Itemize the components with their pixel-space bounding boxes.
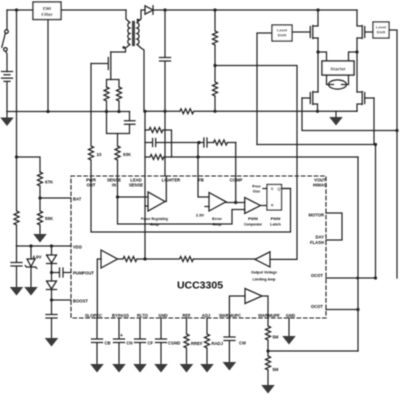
svg-text:S: S <box>271 186 274 191</box>
svg-text:CW: CW <box>239 341 246 346</box>
svg-text:FLASH: FLASH <box>310 240 324 245</box>
ground CB <box>90 364 104 373</box>
svg-text:5M: 5M <box>273 335 279 340</box>
wire warmup input <box>229 296 245 318</box>
wire warmupc ext <box>228 318 230 337</box>
wire rlto ext <box>139 318 141 339</box>
IC box dashed <box>71 176 326 318</box>
node output cap rail <box>163 110 166 113</box>
wire PRA output <box>165 176 166 202</box>
svg-text:OCOT: OCOT <box>311 304 324 309</box>
zener 4.9V <box>25 246 37 287</box>
capacitor CF <box>135 339 146 364</box>
starter box <box>322 61 354 75</box>
svg-text:GND: GND <box>158 313 167 318</box>
lamp <box>327 75 349 85</box>
wire OVL input <box>270 176 297 259</box>
op-amp output voltage limiting <box>255 252 270 267</box>
svg-text:OUT: OUT <box>87 183 96 188</box>
wire OUT2 gate line <box>302 98 397 131</box>
svg-text:PWM: PWM <box>271 216 281 221</box>
wire gnd2 ext <box>288 318 290 336</box>
resistor RREF <box>184 318 189 364</box>
svg-text:Shift: Shift <box>377 30 387 35</box>
resistor rail inline <box>180 109 357 114</box>
svg-text:2.5V: 2.5V <box>196 213 205 218</box>
node starter left <box>316 50 319 53</box>
capacitor output filter <box>160 10 171 176</box>
wire sense tap <box>117 134 119 147</box>
op-amp slope buffer <box>101 250 118 268</box>
svg-text:Comparator: Comparator <box>244 221 262 226</box>
wire BOOST pin <box>52 299 72 301</box>
svg-text:4.9V: 4.9V <box>33 255 42 260</box>
wire VDD pin rail <box>17 245 72 247</box>
node battery rail junction <box>15 8 18 11</box>
wire COMP pin <box>235 143 237 203</box>
svg-text:BYPASS: BYPASS <box>112 313 129 318</box>
ground warmup <box>261 385 275 394</box>
svg-text:Output Voltage: Output Voltage <box>251 270 278 275</box>
svg-text:Error: Error <box>212 216 222 221</box>
ground CW <box>223 362 237 371</box>
node bridge left top <box>316 8 319 11</box>
wire lamp voltage tap <box>215 66 297 177</box>
wire FB long line <box>198 156 358 158</box>
wire motor dayflash bracket <box>326 213 342 240</box>
svg-text:UCC3305: UCC3305 <box>177 280 223 292</box>
wire OUT1 vertical <box>375 145 377 279</box>
wire EMI filter bottom <box>47 20 49 112</box>
wire slope buffer input <box>97 259 101 318</box>
op-amp error <box>209 193 226 212</box>
svg-text:BAT: BAT <box>73 197 82 202</box>
resistor comp <box>214 140 236 145</box>
wire Q1 source split <box>107 80 120 88</box>
ground VDD cap <box>10 287 24 296</box>
wire BAT pin <box>40 197 71 199</box>
svg-text:FB: FB <box>198 178 204 183</box>
ground RREF <box>180 364 194 373</box>
ground CN <box>112 364 126 373</box>
node COMP tee <box>234 201 237 204</box>
wire secondary return <box>137 45 144 111</box>
wire latch Q out <box>282 188 291 190</box>
svg-text:RLTO: RLTO <box>137 313 149 318</box>
wire top rail left <box>7 9 126 11</box>
node divider top <box>213 8 216 11</box>
mosfet Q3 <box>302 92 318 112</box>
wire LEAD internal <box>144 176 146 259</box>
node BAT tap <box>38 196 41 199</box>
wire divider tap to 67K <box>17 157 41 172</box>
ground zener <box>24 287 38 296</box>
resistor lead lower <box>145 155 198 160</box>
svg-text:Q: Q <box>277 186 280 191</box>
node OUT2 pin tee <box>356 308 359 311</box>
node comp network <box>197 141 200 144</box>
wire starter leads <box>318 52 357 61</box>
node OUT2 crossing blob <box>356 277 359 280</box>
svg-text:CN: CN <box>127 341 133 346</box>
svg-text:CB: CB <box>105 341 111 346</box>
wire bridge left node <box>317 38 319 92</box>
capacitor CGND <box>156 339 167 364</box>
resistor warmup upper 5M <box>266 318 271 351</box>
svg-text:COMP: COMP <box>230 178 243 183</box>
resistor 56K <box>38 198 43 234</box>
svg-text:RREF: RREF <box>191 341 203 346</box>
node sense A rail <box>105 110 108 113</box>
wire LEAD to PRA <box>145 205 148 207</box>
node phase dot primary <box>122 46 125 49</box>
ground battery <box>6 112 8 118</box>
wire secondary top lead <box>137 10 145 23</box>
svg-text:Starter: Starter <box>330 67 346 73</box>
svg-text:PUMPOUT: PUMPOUT <box>73 271 94 276</box>
node EMI ground junction <box>46 110 49 113</box>
mosfet Q1 <box>91 52 111 80</box>
wire slopec ext <box>96 318 98 339</box>
node OUT2 tee <box>395 129 398 132</box>
node OUT1 pin tee <box>374 276 377 279</box>
capacitor pump <box>52 268 72 277</box>
diode pump D1 <box>47 246 57 273</box>
capacitor CB <box>92 339 103 364</box>
wire PWROUT internal wrap <box>91 176 291 232</box>
capacitor boost <box>46 300 57 338</box>
wire EA output <box>226 202 245 204</box>
svg-text:Filter: Filter <box>41 12 52 17</box>
wire ground rail right <box>144 110 180 113</box>
ground bridge <box>335 111 337 117</box>
svg-text:10: 10 <box>97 152 102 157</box>
comparator PWM <box>245 198 261 214</box>
svg-text:Power Regulating: Power Regulating <box>141 216 168 221</box>
svg-text:Shift: Shift <box>278 33 288 38</box>
resistor 10 gate <box>89 64 94 177</box>
wire warmup divider tap <box>268 350 358 352</box>
ground CF <box>133 364 147 373</box>
level shift box right <box>373 22 389 38</box>
svg-text:Osc: Osc <box>253 188 261 193</box>
diode pump D2 <box>47 273 57 301</box>
latch box PWM <box>267 185 282 211</box>
switch S1 <box>6 10 8 30</box>
wire OUT1 gate line <box>257 144 376 146</box>
svg-text:WARMUPF: WARMUPF <box>258 313 280 318</box>
ground boost cap <box>45 338 59 347</box>
node divider tap <box>213 64 216 67</box>
capacitor CN <box>114 339 125 364</box>
svg-text:GND: GND <box>286 313 295 318</box>
wire SENSE to PRA <box>118 196 149 198</box>
wire FB pin <box>198 143 209 198</box>
capacitor sense filter <box>107 112 136 134</box>
op-amp power regulating <box>148 192 165 211</box>
ground gnd2 <box>282 336 296 345</box>
EMI filter box <box>33 2 61 20</box>
wire gnd pin ext <box>160 318 162 339</box>
op-amp warmup buffer <box>245 289 262 304</box>
svg-text:OCOT: OCOT <box>311 273 324 278</box>
wire OUT1 pin <box>326 277 376 279</box>
mosfet Q5 <box>357 92 374 112</box>
wire level shift left input <box>257 33 272 145</box>
wire Q5 gate drop <box>373 98 375 145</box>
transformer T1 <box>128 23 130 45</box>
svg-text:BOOST: BOOST <box>73 299 88 304</box>
svg-text:DAY: DAY <box>316 235 325 240</box>
wire bridge right node <box>356 38 358 92</box>
wire OUT2 vertical <box>357 157 359 351</box>
svg-text:SENSE: SENSE <box>129 183 143 188</box>
svg-text:Amp: Amp <box>150 221 159 226</box>
svg-text:56K: 56K <box>45 216 54 221</box>
capacitor CW <box>224 337 235 362</box>
node OUT1 tee <box>374 143 377 146</box>
svg-text:ADJ: ADJ <box>202 313 211 318</box>
node VBAT divider tap <box>15 155 18 158</box>
ground CGND <box>154 364 168 373</box>
node FB tee <box>196 155 199 158</box>
ground 56K <box>33 234 47 243</box>
wire ground rail left <box>7 111 130 113</box>
resistor warmup lower 5M <box>266 351 271 385</box>
resistor sense B <box>117 87 122 112</box>
wire level shift right input <box>389 30 397 278</box>
svg-text:CF: CF <box>148 341 154 346</box>
svg-text:WARMUPC: WARMUPC <box>219 313 241 318</box>
battery BT1 <box>2 72 13 112</box>
node buffer lead join <box>143 257 146 260</box>
svg-text:R: R <box>271 203 274 208</box>
resistor buffer out <box>118 257 146 262</box>
resistor divider upper <box>213 10 218 66</box>
wire free osc to latch <box>263 188 267 190</box>
svg-text:MOTOR: MOTOR <box>308 213 324 218</box>
svg-text:5M: 5M <box>273 367 279 372</box>
resistor ovl line <box>145 257 255 262</box>
level shift box left <box>272 25 292 41</box>
resistor RADJ <box>205 318 210 364</box>
node output cap top <box>163 8 166 11</box>
wire comparator out <box>260 205 267 207</box>
svg-text:+: + <box>120 333 123 339</box>
svg-text:SLOPEC: SLOPEC <box>85 313 102 318</box>
resistor 67K <box>38 172 43 198</box>
svg-text:93K: 93K <box>123 152 132 157</box>
svg-text:Latch: Latch <box>270 221 281 226</box>
node secondary return junction <box>143 110 146 113</box>
svg-text:IN: IN <box>112 183 116 188</box>
svg-text:CGND: CGND <box>168 341 180 346</box>
resistor divider lower <box>213 66 218 112</box>
wire primary top lead <box>126 10 130 23</box>
svg-text:VDD: VDD <box>73 245 82 250</box>
node phase dot secondary <box>137 19 140 22</box>
capacitor comp <box>199 138 214 147</box>
wire primary bottom lead <box>111 45 130 53</box>
wire OUT2 pin <box>326 309 358 311</box>
diode rectifier <box>145 6 165 14</box>
resistor lead upper <box>145 128 172 158</box>
node boost <box>50 298 53 301</box>
node divider rail <box>213 110 216 113</box>
wire lead sense pin <box>144 111 146 176</box>
ground RADJ <box>200 364 214 373</box>
mosfet Q4 <box>357 10 373 39</box>
svg-text:HIMAG: HIMAG <box>313 183 327 188</box>
svg-text:Limiting Amp: Limiting Amp <box>253 276 277 281</box>
node sense B rail <box>117 110 120 113</box>
svg-text:Amp: Amp <box>213 221 222 226</box>
node SENSE pra tee <box>116 195 119 198</box>
svg-text:PWM: PWM <box>248 216 258 221</box>
node starter right <box>355 50 358 53</box>
node Q3 source rail <box>316 110 319 113</box>
wire bypass ext <box>118 318 120 339</box>
svg-text:REF: REF <box>182 313 191 318</box>
resistor 93K <box>115 146 120 176</box>
wire VBAT sense line <box>16 10 18 157</box>
svg-text:LIGHTER: LIGHTER <box>162 178 180 183</box>
wire SENSE internal <box>118 176 245 224</box>
wire top rail right <box>165 9 357 11</box>
mosfet Q2 <box>292 10 318 39</box>
node zener junction <box>29 244 32 247</box>
capacitor lead network <box>145 139 199 147</box>
node pump mid <box>50 271 53 274</box>
node warmup divider <box>266 349 269 352</box>
capacitor VDD <box>11 246 22 287</box>
resistor VDD feed <box>14 157 19 246</box>
node pump diode top <box>50 244 53 247</box>
svg-text:67K: 67K <box>45 180 54 185</box>
resistor sense A <box>104 87 109 112</box>
wire warmup output <box>262 296 268 318</box>
svg-text:RADJ: RADJ <box>212 341 224 346</box>
wire 2.5V stub <box>205 206 209 208</box>
svg-text:EMI: EMI <box>43 6 51 11</box>
